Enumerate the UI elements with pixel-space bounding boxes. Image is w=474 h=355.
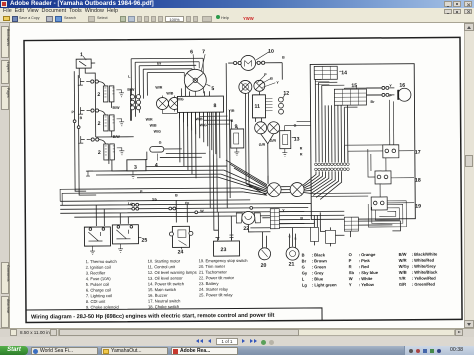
starter relay 24 — [172, 226, 189, 247]
legend column 1 — [86, 259, 120, 310]
thermo wire lug — [86, 171, 93, 176]
svg-text:Lg: Lg — [128, 202, 132, 206]
svg-text:5. Pulser coil: 5. Pulser coil — [86, 282, 110, 287]
svg-text:22. Power tilt motor: 22. Power tilt motor — [199, 275, 235, 280]
svg-text:8: 8 — [213, 103, 216, 109]
svg-text:B: B — [300, 217, 303, 221]
CDI right outputs — [200, 112, 232, 129]
connector link wires — [281, 187, 290, 193]
run bends left — [60, 189, 79, 205]
svg-text:13: 13 — [294, 137, 300, 143]
svg-text:R: R — [349, 264, 352, 269]
svg-text:G/R: G/R — [270, 139, 277, 143]
relay 25b ground — [118, 244, 123, 253]
svg-text:W/G: W/G — [154, 130, 161, 134]
svg-text:21: 21 — [289, 262, 295, 268]
svg-text:7. Lighting coil: 7. Lighting coil — [86, 293, 112, 298]
svg-text:24. Starter relay: 24. Starter relay — [199, 287, 229, 292]
svg-text:B: B — [80, 116, 83, 120]
svg-text:14: 14 — [341, 70, 347, 76]
fan-in wires left connector — [218, 160, 268, 196]
task buttons — [31, 347, 98, 355]
harness connector R — [290, 183, 304, 197]
svg-text:23: 23 — [221, 247, 227, 253]
loop verticals — [130, 59, 147, 121]
spark plug row C — [78, 136, 91, 143]
left bundle connectors — [73, 120, 76, 123]
svg-text:W: W — [349, 276, 353, 281]
loops around 19 — [368, 201, 406, 227]
leaders P B Y — [257, 75, 275, 88]
main switch 15 — [334, 89, 366, 105]
connector on motor wire — [234, 61, 237, 64]
svg-text:: Orange: : Orange — [359, 252, 377, 257]
buzzer wires — [366, 88, 394, 95]
svg-text:P: P — [349, 258, 352, 263]
ladder wires — [248, 211, 400, 236]
spark plug row B — [78, 107, 91, 114]
power tilt relay 25b — [112, 225, 138, 244]
svg-text:20. Trim meter: 20. Trim meter — [199, 264, 226, 269]
colour code column 1 — [302, 252, 338, 287]
svg-text:W/R: W/R — [399, 258, 407, 263]
harness connector L — [267, 183, 281, 197]
starter relay feeds — [176, 200, 187, 222]
svg-text:: Green/Red: : Green/Red — [412, 282, 436, 287]
svg-text:15. Main switch: 15. Main switch — [148, 287, 177, 292]
remote control housing — [310, 64, 415, 220]
svg-text:Wiring diagram - 28J-50 Hp (69: Wiring diagram - 28J-50 Hp (698cc) engin… — [31, 313, 275, 321]
svg-text:2: 2 — [98, 121, 101, 127]
oil level sensor 13 — [280, 131, 291, 149]
remote internal verticals — [315, 79, 348, 162]
svg-text:: Green: : Green — [312, 264, 327, 269]
svg-text:B: B — [270, 77, 273, 81]
trim meter wires — [262, 232, 266, 248]
small box B bottom right — [325, 230, 335, 243]
svg-text:G: G — [288, 235, 291, 239]
CDI underside drops — [180, 112, 220, 158]
svg-text:G/R: G/R — [259, 143, 266, 147]
svg-text:: Red: : Red — [359, 264, 370, 269]
svg-text:6. Charge coil: 6. Charge coil — [86, 287, 111, 292]
control unit 11 — [252, 95, 265, 118]
remote pin connector row 1 — [315, 163, 350, 166]
battery 23 — [213, 241, 239, 256]
leader 12 — [282, 94, 285, 99]
svg-text:20: 20 — [261, 263, 267, 269]
svg-text:19: 19 — [415, 204, 421, 210]
svg-text:: Black/White: : Black/White — [412, 252, 438, 257]
svg-text:17. Neutral switch: 17. Neutral switch — [148, 298, 181, 303]
switch chain wires — [380, 158, 386, 197]
wire from thermo switch — [79, 68, 96, 137]
terminal ladder — [270, 209, 279, 229]
svg-text:2: 2 — [97, 92, 100, 98]
svg-text:24: 24 — [178, 249, 184, 255]
svg-text:: White: : White — [359, 276, 373, 281]
long vertical Y/R — [226, 63, 283, 208]
svg-text:: Yellow/Red: : Yellow/Red — [412, 276, 437, 281]
svg-text:: White/Black: : White/Black — [412, 270, 438, 275]
bottom right ladder — [344, 217, 358, 231]
rectifier 3 — [127, 160, 146, 171]
svg-text:19. Emergency stop switch: 19. Emergency stop switch — [199, 258, 249, 263]
sensor wires — [285, 121, 311, 130]
fan-out wires right connector — [303, 178, 311, 193]
svg-text:25: 25 — [141, 238, 147, 244]
svg-text:23. Battery: 23. Battery — [199, 281, 220, 286]
svg-text:8. CDI unit: 8. CDI unit — [86, 299, 106, 304]
svg-text:B/W: B/W — [399, 252, 407, 257]
rectifier ground — [130, 171, 135, 179]
spark plug row A — [78, 78, 91, 85]
remote top rungs — [315, 79, 381, 107]
svg-text:14. Power tilt switch: 14. Power tilt switch — [148, 281, 185, 286]
wire color labels — [71, 55, 393, 222]
ignition coil 2c — [104, 144, 109, 160]
choke solenoid 9 — [231, 129, 244, 148]
svg-text:: Grey: : Grey — [312, 270, 325, 275]
remote bundle to connector fan — [311, 171, 342, 199]
svg-text:15: 15 — [351, 83, 357, 89]
leader 10 — [256, 52, 269, 60]
svg-text:: Blue: : Blue — [312, 276, 324, 281]
leader 18 — [391, 177, 414, 179]
svg-text:: White/Grey: : White/Grey — [412, 264, 437, 269]
lower distribution runs — [60, 199, 311, 217]
trim meter 20 — [259, 248, 271, 260]
svg-text:W: W — [200, 209, 204, 213]
leader 7 — [201, 54, 205, 71]
svg-text:10. Starting motor: 10. Starting motor — [148, 258, 181, 263]
stator drops — [162, 95, 177, 113]
svg-text:9: 9 — [235, 124, 238, 130]
lower connector a — [255, 122, 267, 134]
connector pair B — [91, 109, 94, 112]
svg-text:13. Oil level sensor: 13. Oil level sensor — [148, 275, 183, 280]
svg-text:B: B — [302, 253, 305, 258]
leader 13 — [292, 137, 296, 139]
svg-text:: Brown: : Brown — [312, 258, 328, 263]
svg-text:18: 18 — [415, 178, 421, 184]
svg-text:Sb: Sb — [152, 198, 157, 202]
svg-text:16: 16 — [399, 83, 405, 89]
svg-text:22: 22 — [243, 226, 249, 232]
svg-text:6: 6 — [190, 49, 193, 55]
remote rungs right — [311, 145, 383, 197]
svg-text:: Pink: : Pink — [359, 258, 371, 263]
wire to coil B — [99, 110, 106, 117]
svg-text:9. Choke solenoid: 9. Choke solenoid — [86, 304, 120, 309]
fuse 4 — [150, 147, 164, 153]
svg-text:B: B — [282, 56, 285, 60]
svg-text:2. Ignition coil: 2. Ignition coil — [86, 265, 111, 270]
buzzer connectors — [382, 86, 385, 89]
svg-text:11: 11 — [254, 104, 260, 110]
svg-text:5: 5 — [211, 86, 214, 92]
legend column 3 — [199, 258, 249, 298]
CDI battery-column drops — [210, 112, 217, 158]
stator connector pair — [156, 98, 168, 110]
leader 5 — [206, 84, 210, 86]
svg-text:W/R: W/R — [155, 86, 162, 90]
tachometer 21 — [286, 247, 299, 260]
svg-text:21. Tachometer: 21. Tachometer — [199, 269, 228, 274]
leader 1 — [83, 56, 86, 60]
svg-text:3. Rectifier: 3. Rectifier — [86, 270, 106, 275]
battery feed — [210, 150, 232, 240]
svg-text:Y: Y — [389, 84, 392, 88]
choke ground — [234, 148, 239, 156]
svg-text:12: 12 — [283, 91, 289, 97]
tach wire labels — [288, 235, 296, 241]
svg-text:B/W: B/W — [127, 88, 135, 92]
svg-text:L: L — [128, 75, 131, 79]
relay feed drops — [96, 205, 128, 226]
choke switch 18 — [375, 171, 391, 184]
wire to coil C — [99, 139, 106, 146]
ground coil B — [117, 119, 125, 126]
CDI wires top — [181, 84, 209, 96]
buzzer drop wires — [389, 100, 393, 145]
svg-text:: Yellow: : Yellow — [359, 282, 375, 287]
svg-text:Y: Y — [276, 81, 279, 85]
R wires fuse links — [145, 149, 206, 160]
svg-text:1: 1 — [80, 52, 83, 58]
thermo switch 1 — [76, 59, 91, 68]
remote pin connector row 2 — [315, 168, 350, 171]
svg-text:W/B: W/B — [196, 117, 203, 121]
svg-text:R: R — [300, 153, 303, 157]
small connector stack — [130, 95, 134, 99]
svg-text:P: P — [140, 190, 143, 194]
leader 24 — [181, 247, 183, 249]
svg-text:W/G: W/G — [200, 123, 207, 127]
sensor ground — [282, 149, 287, 157]
leader 6 — [193, 54, 194, 69]
svg-text:G: G — [294, 124, 297, 128]
relay 25a ground — [90, 246, 95, 255]
loop right bends — [184, 58, 203, 93]
svg-text:: Sky blue: : Sky blue — [359, 270, 379, 275]
leader 19 — [387, 202, 414, 204]
oil lamp 12 — [279, 97, 284, 102]
svg-text:16. Buzzer: 16. Buzzer — [148, 293, 168, 298]
svg-text:4. Fuse (10A): 4. Fuse (10A) — [86, 276, 111, 281]
svg-text:3: 3 — [134, 165, 137, 171]
CDI output bundle verticals — [180, 112, 196, 178]
CDI unit 8 — [177, 96, 223, 112]
wire to coil A — [98, 81, 105, 88]
run bullet connectors — [132, 203, 135, 206]
svg-text:G/R: G/R — [399, 282, 406, 287]
svg-text:W/G: W/G — [176, 97, 183, 101]
svg-text:: Light green: : Light green — [312, 282, 337, 287]
buzzer 16 — [398, 88, 411, 101]
gauge connector a — [239, 80, 252, 93]
svg-text:G: G — [302, 265, 305, 270]
svg-text:P: P — [264, 73, 267, 77]
svg-text:L: L — [302, 277, 305, 282]
svg-text:Y/R: Y/R — [229, 109, 235, 113]
connector pair A — [91, 80, 94, 83]
svg-text:Sb: Sb — [349, 270, 355, 275]
ignition coil 2b — [104, 115, 109, 131]
starting motor 10 — [241, 55, 256, 70]
svg-text:B/W: B/W — [112, 106, 120, 110]
svg-text:Lg: Lg — [302, 282, 308, 287]
svg-text:Br: Br — [185, 201, 190, 205]
svg-text:7: 7 — [202, 49, 205, 55]
outer frame — [24, 37, 462, 322]
svg-text:11. Control unit: 11. Control unit — [148, 264, 176, 269]
ground coil C — [117, 148, 125, 155]
svg-text:Y: Y — [349, 282, 352, 287]
svg-text:Y/R: Y/R — [399, 276, 406, 281]
ground coil A — [116, 90, 124, 97]
component number labels — [80, 48, 421, 270]
14 sub rows — [315, 81, 329, 84]
left bundle wire B — [78, 75, 96, 195]
MDI child window buttons — [444, 9, 452, 15]
svg-text:P: P — [72, 110, 75, 114]
emergency stop switch 19 — [371, 197, 387, 210]
small box wires — [314, 221, 350, 246]
svg-text:Gy: Gy — [302, 270, 308, 275]
svg-text:B/W: B/W — [113, 135, 121, 139]
leader 14 — [339, 70, 341, 72]
svg-text:25. Power tilt relay: 25. Power tilt relay — [199, 292, 234, 297]
power tilt motor 22 — [236, 213, 260, 223]
svg-text:18. Choke switch: 18. Choke switch — [148, 304, 180, 309]
left bundle wire P — [74, 71, 86, 191]
svg-text:B: B — [231, 119, 234, 123]
caption box rule — [26, 308, 322, 323]
svg-text:1. Thermo switch: 1. Thermo switch — [86, 259, 118, 264]
V wires — [261, 134, 274, 144]
svg-text:B: B — [175, 193, 178, 197]
tach wires — [289, 228, 295, 248]
colour code column 3 — [399, 252, 439, 287]
svg-text:12. Oil level warning lamps: 12. Oil level warning lamps — [148, 270, 197, 275]
svg-text:Y: Y — [282, 209, 285, 213]
svg-text:O: O — [349, 252, 353, 257]
svg-text:G: G — [159, 141, 162, 145]
gauge connector b — [254, 80, 265, 91]
engine long runs to remote — [75, 136, 243, 193]
magneto ground — [193, 91, 198, 100]
start button — [0, 346, 28, 355]
svg-text:R: R — [300, 147, 303, 151]
svg-text:2: 2 — [98, 150, 101, 156]
ignition coil 2a — [103, 86, 108, 102]
coil B/W drops — [108, 102, 137, 171]
colour code column 2 — [349, 252, 379, 287]
svg-text:: Black: : Black — [312, 252, 326, 257]
svg-text:W/Gy: W/Gy — [399, 264, 410, 269]
small box A bottom right — [310, 227, 318, 241]
svg-text:10: 10 — [268, 49, 274, 55]
svg-text:17: 17 — [415, 150, 421, 156]
neutral switch 17 — [383, 145, 399, 158]
svg-text:W/B: W/B — [166, 91, 173, 95]
leader 17 — [399, 150, 414, 152]
svg-text:: White/Red: : White/Red — [412, 258, 435, 263]
nested harness loops (CDI top area) — [131, 58, 203, 73]
leader 4 — [156, 154, 158, 161]
svg-text:Br: Br — [157, 62, 162, 66]
titlebar window buttons — [444, 1, 452, 7]
leader 15 — [355, 87, 357, 89]
legend column 2 — [148, 258, 197, 309]
power tilt relay 25a — [84, 227, 110, 246]
system tray — [404, 346, 474, 355]
leader 25 — [138, 237, 141, 239]
tilt switch 14 — [314, 66, 337, 79]
magneto pulser 5 — [184, 69, 206, 91]
control unit pins — [265, 99, 272, 111]
connector pair C — [91, 138, 94, 141]
lower connector b — [268, 122, 280, 134]
leader 9 — [237, 127, 239, 129]
svg-text:W/B: W/B — [150, 124, 157, 128]
motor wire — [228, 62, 282, 64]
wires exiting remote box bottom — [250, 212, 400, 232]
svg-text:W/B: W/B — [399, 270, 407, 275]
svg-text:W/R: W/R — [146, 118, 153, 122]
svg-text:4: 4 — [155, 163, 158, 169]
svg-text:Br: Br — [302, 258, 307, 263]
gauge feeds — [245, 92, 268, 184]
svg-text:Br: Br — [370, 100, 375, 104]
